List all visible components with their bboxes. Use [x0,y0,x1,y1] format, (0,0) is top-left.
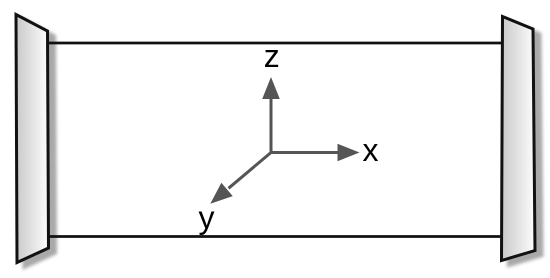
svg-text:z: z [264,38,280,74]
y axis arrowhead [205,183,233,211]
x axis arrowhead [338,144,360,162]
plate top edge [47,42,503,45]
y axis line [229,153,272,189]
right support shadow [509,22,543,266]
z axis arrowhead [262,77,280,99]
x axis line [271,151,341,154]
right fixed support [502,17,536,261]
plate bottom edge [47,235,503,238]
z axis line [270,94,273,153]
left fixed support [16,15,49,263]
svg-text:x: x [363,132,379,168]
svg-text:y: y [199,199,215,235]
left support shadow [23,20,56,268]
